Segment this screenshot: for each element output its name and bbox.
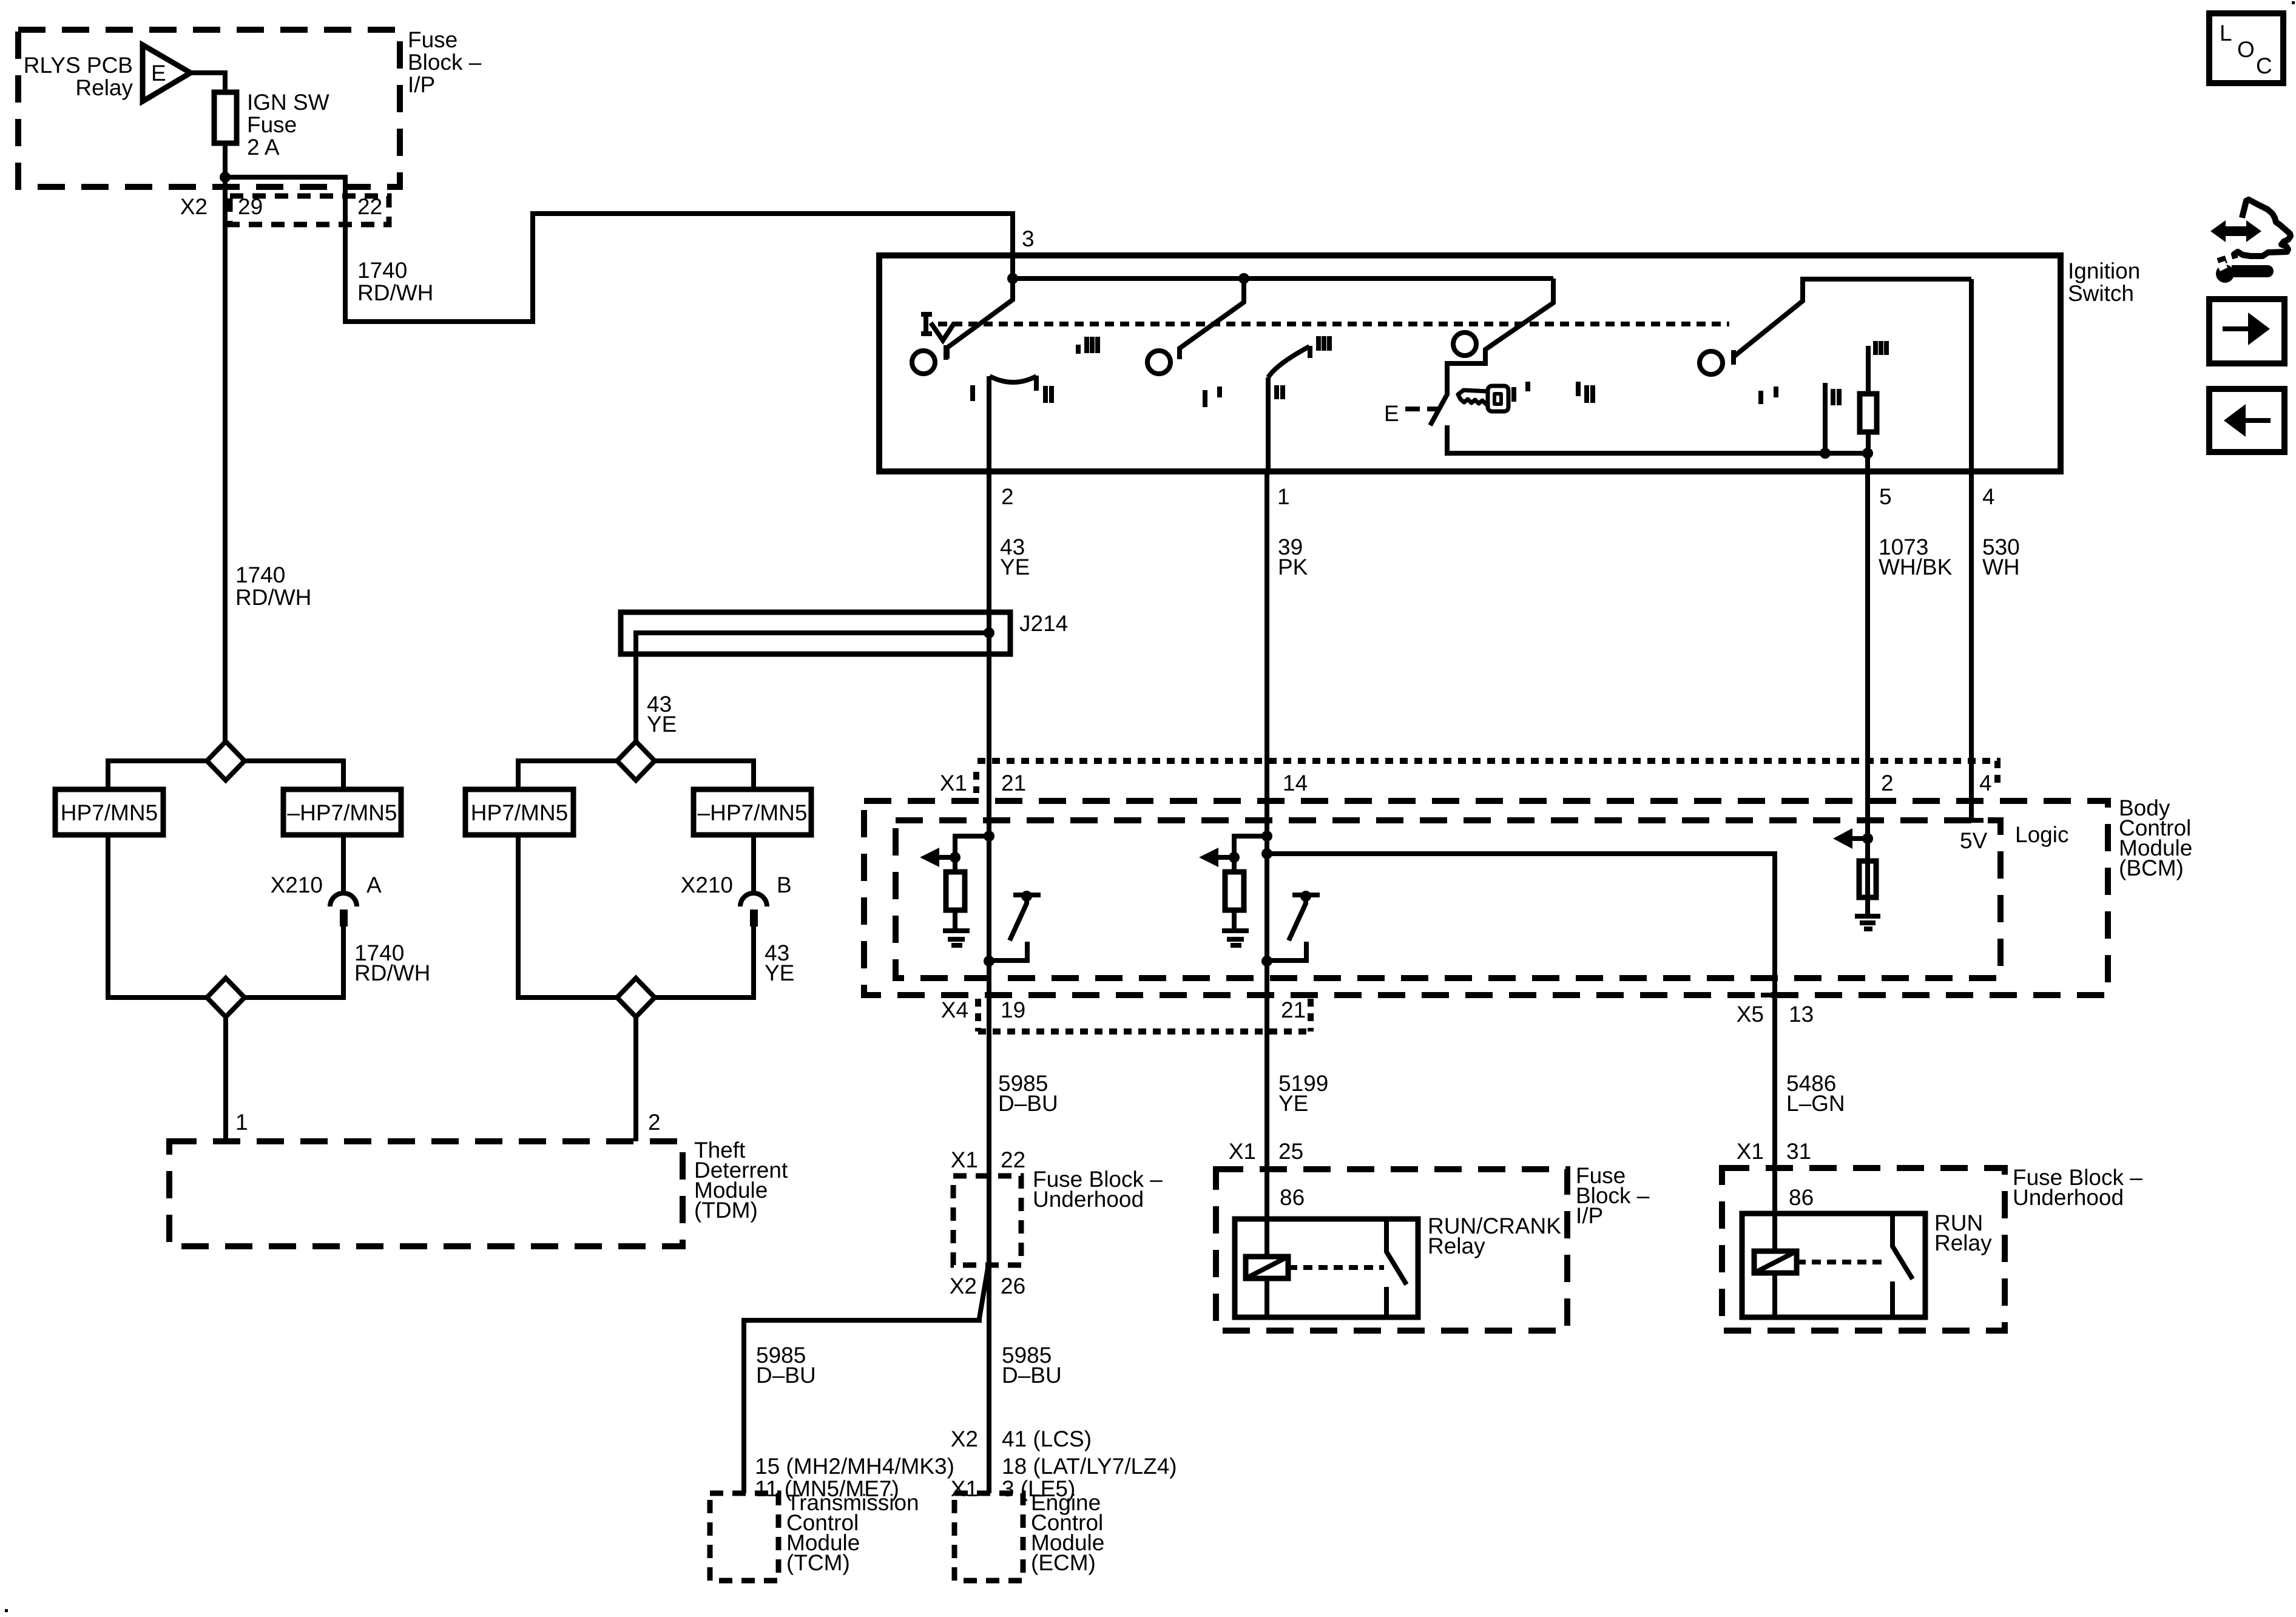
svg-text:HP7/MN5: HP7/MN5 bbox=[61, 800, 158, 825]
wire 5985 D-BU BCM to fuse block bbox=[987, 962, 991, 1176]
svg-text:Underhood: Underhood bbox=[2013, 1185, 2124, 1210]
splice pack J214 box bbox=[621, 612, 1010, 654]
TCM label bbox=[786, 1490, 919, 1575]
svg-text:YE: YE bbox=[1278, 1091, 1308, 1116]
TDM label bbox=[694, 1138, 788, 1223]
svg-text:22: 22 bbox=[1001, 1147, 1025, 1172]
switch S4 contact circle bbox=[1700, 351, 1723, 374]
wire 5486 L-GN label bbox=[1786, 1071, 1845, 1116]
wire pin22 to ignition pin 3 bbox=[345, 214, 1013, 322]
wire 5199 YE BCM to relay bbox=[1264, 962, 1269, 1257]
switch S2 contact circle bbox=[1147, 351, 1170, 374]
J214 internal wire bbox=[636, 633, 989, 741]
wire 43 YE label bbox=[1000, 535, 1030, 579]
connector X210 A symbol bbox=[330, 893, 357, 927]
wrench icon bbox=[2216, 255, 2274, 283]
switch S2 position II bbox=[1277, 385, 1283, 399]
connector X210 A labels bbox=[271, 873, 382, 897]
junction node w14 c bbox=[1261, 956, 1272, 967]
svg-text:–HP7/MN5: –HP7/MN5 bbox=[698, 800, 808, 825]
LOC icon box bbox=[2209, 13, 2283, 83]
svg-text:21: 21 bbox=[1001, 771, 1026, 795]
wire 21 into BCM bbox=[987, 761, 991, 962]
junction node II line bbox=[1820, 448, 1831, 459]
relay contact E triangle bbox=[143, 45, 191, 101]
svg-text:X1: X1 bbox=[1737, 1139, 1764, 1164]
wire TDM pin1 bbox=[223, 1017, 228, 1141]
TCM pin labels bbox=[755, 1454, 954, 1501]
svg-text:41 (LCS): 41 (LCS) bbox=[1002, 1426, 1092, 1451]
BCM label bbox=[2119, 795, 2192, 880]
page artifact dots bbox=[2292, 1, 2295, 4]
connector X1 25 labels bbox=[1229, 1139, 1303, 1164]
junction node w14 a bbox=[1261, 831, 1272, 842]
svg-text:18 (LAT/LY7/LZ4): 18 (LAT/LY7/LZ4) bbox=[1002, 1454, 1177, 1479]
ground BCM G2 bbox=[1222, 931, 1249, 945]
fuse block underhood label (relay) bbox=[2013, 1165, 2142, 1210]
splice diamond top circuit1 bbox=[207, 741, 245, 780]
switch S4 lever tick bbox=[1731, 350, 1736, 365]
svg-text:29: 29 bbox=[238, 194, 263, 219]
ignition bottom bus wire bbox=[1447, 425, 1868, 453]
junction node J214 bbox=[984, 627, 994, 638]
ignition switch box bbox=[879, 255, 2061, 471]
connector X210 B labels bbox=[681, 873, 792, 897]
BCM dashed box bbox=[864, 801, 2108, 995]
svg-text:X4: X4 bbox=[941, 998, 968, 1022]
fuse block I/P label (relay) bbox=[1576, 1163, 1650, 1228]
svg-text:86: 86 bbox=[1789, 1185, 1814, 1210]
svg-text:WH: WH bbox=[1982, 555, 2020, 579]
switch S1 position III bbox=[1078, 337, 1098, 354]
fuse block I/P dashed box bbox=[18, 30, 400, 187]
RUN relay coil bbox=[1754, 1251, 1797, 1273]
junction node S2 bbox=[1238, 273, 1249, 284]
wire 1073 into BCM bbox=[1865, 761, 1870, 914]
connector X2 26 labels bbox=[950, 1274, 1025, 1298]
key position II bbox=[1578, 382, 1593, 403]
svg-text:YE: YE bbox=[765, 960, 794, 985]
svg-text:1740: 1740 bbox=[357, 258, 407, 283]
sense branch wire w21 bbox=[955, 836, 989, 857]
switch S1 wiper arc bbox=[990, 376, 1036, 391]
RUN relay dashed link bbox=[1797, 1260, 1883, 1264]
switch S2 wiper curve bbox=[1268, 346, 1310, 377]
junction node pin5 bbox=[1862, 448, 1873, 459]
pin labels bbox=[1001, 484, 1995, 509]
wire pin 5 bbox=[1865, 453, 1870, 471]
svg-text:Switch: Switch bbox=[2068, 281, 2134, 306]
svg-text:2: 2 bbox=[648, 1110, 661, 1135]
circuit2 right branch wire bbox=[655, 761, 754, 789]
key E dashed link bbox=[1405, 407, 1439, 411]
wire fuse to junction bbox=[223, 143, 228, 177]
wire 43 YE pin2 to J214 bbox=[987, 471, 991, 761]
connector X1 BCM tick bbox=[973, 772, 979, 793]
switch S1 accessory symbol bbox=[921, 314, 954, 340]
-HP7/MN5 box circuit2 bbox=[694, 789, 811, 835]
svg-text:–HP7/MN5: –HP7/MN5 bbox=[288, 800, 397, 825]
wire 530 into BCM bbox=[1969, 761, 1974, 820]
switch S4 position III label bbox=[1876, 341, 1886, 355]
switch S4 lever bbox=[1734, 279, 1971, 357]
RUN/CRANK relay switch bbox=[1386, 1219, 1406, 1317]
svg-text:RD/WH: RD/WH bbox=[357, 280, 433, 305]
switch BCM SW2 bbox=[1267, 891, 1320, 960]
wire 1073 WH/BK pin5 to BCM bbox=[1865, 471, 1870, 761]
svg-text:L: L bbox=[2220, 21, 2232, 46]
switch S1 lever bbox=[947, 279, 1013, 359]
signal arrow w2 bbox=[1833, 828, 1868, 849]
svg-text:Relay: Relay bbox=[1428, 1234, 1485, 1258]
connector X4 dotted line bbox=[978, 999, 1311, 1031]
svg-text:(BCM): (BCM) bbox=[2119, 856, 2184, 880]
fuse block underhood dashed box (run relay) bbox=[1722, 1168, 2005, 1331]
ECM label bbox=[1031, 1490, 1104, 1575]
HP7/MN5 box circuit1 bbox=[55, 789, 163, 835]
junction node bbox=[220, 172, 231, 183]
wire 1073 WH/BK label bbox=[1879, 535, 1953, 579]
wire 39 PK pin1 to BCM bbox=[1264, 471, 1269, 761]
-HP7/MN5 box circuit1 bbox=[283, 789, 401, 835]
switch S4 position II label bbox=[1833, 389, 1839, 405]
wire junction down pin 29 bbox=[223, 177, 228, 741]
RUN relay label bbox=[1934, 1210, 1992, 1255]
svg-text:2: 2 bbox=[1001, 484, 1014, 509]
sense branch wire w14 bbox=[1234, 836, 1267, 857]
svg-text:RD/WH: RD/WH bbox=[354, 960, 430, 985]
wire into RUN relay coil bbox=[1772, 1141, 1777, 1251]
circuit2 left branch wire bbox=[518, 761, 617, 789]
svg-text:(ECM): (ECM) bbox=[1031, 1550, 1096, 1575]
wire from E triangle to fuse bbox=[191, 73, 225, 92]
TCM dashed box bbox=[710, 1493, 778, 1581]
svg-text:X1: X1 bbox=[940, 771, 967, 795]
wire 1740 RD/WH label (upper) bbox=[357, 258, 433, 305]
key symbol bbox=[1458, 386, 1508, 411]
junction node w14 b bbox=[1229, 852, 1240, 863]
svg-text:D–BU: D–BU bbox=[998, 1091, 1058, 1116]
wire 5985 D-BU label left bbox=[756, 1343, 816, 1388]
svg-text:X1: X1 bbox=[951, 1476, 978, 1501]
svg-text:86: 86 bbox=[1280, 1185, 1305, 1210]
ECM dashed box bbox=[954, 1493, 1023, 1581]
svg-text:X210: X210 bbox=[681, 873, 733, 897]
fuse block underhood dashed box bbox=[953, 1176, 1021, 1265]
arrow left icon box bbox=[2209, 389, 2284, 452]
mechanical link dashed line bbox=[938, 322, 1729, 326]
svg-text:2 A: 2 A bbox=[247, 135, 280, 160]
switch S2 position III bbox=[1319, 336, 1329, 351]
RUN/CRANK relay coil bbox=[1246, 1257, 1288, 1278]
RUN/CRANK relay coil tail bbox=[1264, 1278, 1269, 1317]
ECM pin labels X2 41 bbox=[951, 1426, 1092, 1451]
TDM dashed box bbox=[169, 1141, 683, 1246]
RUN relay coil tail bbox=[1772, 1273, 1777, 1317]
svg-text:D–BU: D–BU bbox=[1002, 1363, 1062, 1388]
svg-text:5: 5 bbox=[1879, 484, 1892, 509]
svg-text:(TDM): (TDM) bbox=[694, 1198, 758, 1223]
svg-text:A: A bbox=[366, 873, 382, 897]
wire 5985 D-BU label right bbox=[1002, 1343, 1062, 1388]
RUN relay switch bbox=[1893, 1214, 1913, 1317]
svg-text:X1: X1 bbox=[951, 1147, 978, 1172]
svg-text:Logic: Logic bbox=[2015, 822, 2068, 847]
svg-text:I/P: I/P bbox=[408, 72, 435, 97]
circuit2 left drop wire bbox=[518, 835, 617, 998]
svg-text:26: 26 bbox=[1001, 1274, 1025, 1298]
wire through underhood fuse block bbox=[987, 1176, 991, 1493]
key switch lever from bus bbox=[1430, 279, 1553, 425]
svg-text:13: 13 bbox=[1789, 1002, 1814, 1027]
wire 1740 RD/WH label (X210 A) bbox=[354, 940, 430, 985]
fuse block underhood label bbox=[1033, 1167, 1163, 1212]
wire S1 to pin 2 bbox=[987, 376, 991, 471]
connector X1 31 labels bbox=[1737, 1139, 1811, 1164]
switch S1 contact circle bbox=[912, 351, 935, 374]
svg-text:RD/WH: RD/WH bbox=[235, 585, 311, 610]
signal arrow w21 bbox=[920, 848, 955, 867]
svg-text:19: 19 bbox=[1001, 998, 1025, 1022]
key position I bbox=[1514, 382, 1528, 402]
junction node w14 d bbox=[1261, 848, 1272, 859]
circuit2 right drop wire bbox=[655, 927, 754, 998]
svg-text:31: 31 bbox=[1786, 1139, 1811, 1164]
svg-text:I/P: I/P bbox=[1576, 1203, 1603, 1228]
svg-text:Ignition: Ignition bbox=[2068, 258, 2140, 283]
connector X210 B symbol bbox=[740, 893, 767, 927]
svg-text:1: 1 bbox=[1277, 484, 1290, 509]
svg-text:E: E bbox=[1384, 401, 1399, 426]
svg-text:1: 1 bbox=[235, 1110, 248, 1135]
svg-text:J214: J214 bbox=[1019, 611, 1068, 636]
body panel icon bbox=[2234, 200, 2291, 258]
svg-text:Underhood: Underhood bbox=[1033, 1187, 1144, 1212]
connector X1 22 labels bbox=[951, 1147, 1025, 1172]
svg-text:YE: YE bbox=[1000, 555, 1030, 579]
svg-text:Fuse: Fuse bbox=[247, 112, 297, 137]
connector X5 labels bbox=[1737, 1002, 1814, 1027]
wire 5985 D-BU label bbox=[998, 1071, 1058, 1116]
splice diamond bottom circuit2 bbox=[617, 978, 655, 1017]
RUN relay box bbox=[1742, 1214, 1925, 1317]
svg-text:2: 2 bbox=[1881, 771, 1894, 795]
svg-text:X1: X1 bbox=[1229, 1139, 1256, 1164]
wire S2 to pin 1 bbox=[1266, 377, 1271, 471]
switch S2 lever bbox=[1180, 279, 1244, 359]
switch S1 position II bbox=[1045, 386, 1052, 403]
svg-text:4: 4 bbox=[1982, 484, 1995, 509]
RUN/CRANK relay dashed link bbox=[1288, 1265, 1384, 1270]
svg-text:Fuse: Fuse bbox=[408, 27, 458, 52]
svg-text:(TCM): (TCM) bbox=[786, 1550, 850, 1575]
svg-text:B: B bbox=[777, 873, 792, 897]
wire 1740 RD/WH label (pin 29 run) bbox=[235, 562, 311, 610]
wire 43 YE label (left drop) bbox=[647, 692, 677, 737]
signal arrow w14 bbox=[1199, 848, 1234, 867]
connector X5 tick bbox=[1761, 993, 1789, 998]
svg-text:C: C bbox=[2256, 53, 2272, 78]
circuit1 left drop wire bbox=[108, 835, 207, 998]
ECM pin labels 18 / X1 3 bbox=[951, 1454, 1177, 1501]
svg-text:X2: X2 bbox=[951, 1426, 978, 1451]
key switch contact circle bbox=[1453, 333, 1476, 356]
svg-text:L–GN: L–GN bbox=[1786, 1091, 1845, 1116]
wire 39 PK label bbox=[1278, 535, 1308, 579]
TCM branch wire bbox=[744, 1268, 988, 1493]
connector X2 labels bbox=[180, 194, 382, 219]
wire box to X210 A bbox=[341, 835, 346, 894]
splice diamond top circuit2 bbox=[617, 741, 655, 780]
junction node w21 c bbox=[984, 956, 994, 967]
resistor BCM R2 bbox=[1225, 856, 1244, 930]
svg-text:15 (MH2/MH4/MK3): 15 (MH2/MH4/MK3) bbox=[755, 1454, 954, 1479]
junction node w21 a bbox=[984, 831, 994, 842]
svg-text:X2: X2 bbox=[950, 1274, 977, 1298]
wire TDM pin2 bbox=[633, 1017, 638, 1141]
svg-text:Relay: Relay bbox=[75, 75, 133, 100]
svg-text:PK: PK bbox=[1278, 555, 1308, 579]
svg-text:22: 22 bbox=[357, 194, 382, 219]
switch S4 position II contact line bbox=[1823, 383, 1828, 453]
svg-text:21: 21 bbox=[1281, 998, 1306, 1022]
svg-text:1740: 1740 bbox=[235, 562, 285, 587]
resistor BCM R1 bbox=[946, 856, 965, 930]
5V supply tick bbox=[1959, 820, 1988, 853]
svg-text:WH/BK: WH/BK bbox=[1879, 555, 1953, 579]
ignition switch label bbox=[2068, 258, 2140, 306]
connector X1 BCM labels bbox=[940, 771, 1992, 795]
fuse block I/P dashed box (run/crank relay) bbox=[1216, 1169, 1567, 1331]
HP7/MN5 box circuit2 bbox=[465, 789, 573, 835]
wire 530 WH label bbox=[1982, 535, 2020, 579]
IGN SW fuse F1 bbox=[214, 90, 329, 160]
switch S1 position I bbox=[970, 385, 975, 401]
svg-text:IGN SW: IGN SW bbox=[247, 90, 329, 115]
circuit1 right branch wire bbox=[245, 761, 343, 789]
svg-text:X5: X5 bbox=[1737, 1002, 1764, 1027]
ground BCM G1 bbox=[943, 931, 970, 945]
run relay feed wire inside BCM bbox=[1267, 854, 1775, 1141]
logic dashed box bbox=[896, 820, 2001, 978]
svg-text:HP7/MN5: HP7/MN5 bbox=[471, 800, 568, 825]
fuse block I/P label bbox=[408, 27, 482, 97]
wire 530 WH pin4 to BCM bbox=[1969, 471, 1974, 761]
ignition bus wire from pin3 bbox=[1013, 258, 1553, 279]
connector X1 BCM dotted line bbox=[977, 761, 1997, 789]
wire 5199 YE label bbox=[1278, 1071, 1328, 1116]
circuit1 right drop wire bbox=[245, 927, 343, 998]
double arrow icon bbox=[2210, 220, 2261, 242]
circuit1 left branch wire bbox=[108, 761, 207, 789]
connector X4 labels bbox=[941, 998, 1306, 1022]
wire pin 4 bbox=[1969, 279, 1974, 471]
svg-text:5V: 5V bbox=[1960, 828, 1988, 853]
svg-text:RLYS PCB: RLYS PCB bbox=[24, 53, 133, 78]
junction node w21 b bbox=[950, 852, 961, 863]
svg-text:X210: X210 bbox=[271, 873, 323, 897]
connector X2 fuse block box bbox=[230, 196, 389, 224]
arrow right icon box bbox=[2209, 299, 2284, 363]
wire box to X210 B bbox=[751, 835, 756, 894]
switch S4 position I bbox=[1761, 387, 1776, 404]
junction node w2 bbox=[1862, 833, 1873, 844]
svg-text:25: 25 bbox=[1278, 1139, 1303, 1164]
svg-text:Relay: Relay bbox=[1934, 1230, 1992, 1255]
resistor R-ign bbox=[1860, 346, 1877, 453]
junction node pin3 bbox=[1007, 273, 1018, 284]
wire 14 into BCM bbox=[1264, 761, 1269, 962]
svg-text:O: O bbox=[2237, 37, 2255, 62]
wire junction to pin 22 bbox=[225, 177, 345, 225]
RUN/CRANK relay box bbox=[1235, 1219, 1418, 1317]
svg-text:X2: X2 bbox=[180, 194, 208, 219]
svg-text:3: 3 bbox=[1022, 226, 1035, 251]
svg-text:Block –: Block – bbox=[408, 50, 482, 75]
splice diamond bottom circuit1 bbox=[207, 978, 245, 1017]
svg-text:YE: YE bbox=[647, 712, 677, 737]
ground BCM G3 bbox=[1855, 916, 1880, 929]
RUN/CRANK relay label bbox=[1428, 1214, 1561, 1258]
svg-text:D–BU: D–BU bbox=[756, 1363, 816, 1388]
switch S2 position I bbox=[1205, 387, 1220, 407]
wire 43 YE label (X210 B) bbox=[765, 940, 794, 985]
RLYS PCB Relay label bbox=[24, 53, 133, 100]
svg-text:4: 4 bbox=[1979, 771, 1992, 795]
resistor BCM R3 bbox=[1859, 861, 1876, 897]
switch BCM SW1 bbox=[989, 891, 1041, 960]
switch S1 circle tick bbox=[944, 345, 948, 360]
svg-text:E: E bbox=[151, 61, 166, 86]
svg-text:14: 14 bbox=[1283, 771, 1308, 795]
